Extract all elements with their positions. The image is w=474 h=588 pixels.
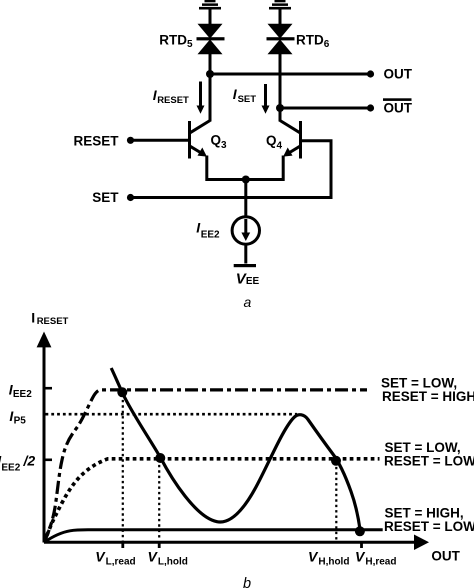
operating point at V_H,read bbox=[355, 526, 365, 536]
svg-text:IRESET: IRESET bbox=[153, 87, 189, 106]
operating point at V_L,hold bbox=[155, 453, 165, 463]
guide V_L,read (dotted vertical) bbox=[122, 395, 124, 541]
svg-text:VH,hold: VH,hold bbox=[308, 549, 349, 568]
svg-text:b: b bbox=[243, 576, 251, 588]
transistor Q3 bbox=[190, 121, 211, 159]
svg-text:RESET = LOW: RESET = LOW bbox=[384, 453, 474, 468]
wire RTD6 to node B bbox=[279, 54, 282, 108]
label OUTbar bbox=[383, 98, 413, 115]
svg-text:VEE: VEE bbox=[236, 271, 260, 288]
svg-text:OUT: OUT bbox=[384, 67, 413, 82]
svg-text:RESET: RESET bbox=[73, 134, 119, 149]
tick V_L,read bbox=[121, 543, 124, 549]
curve SET=LOW RESET=HIGH (dash-dot) bbox=[45, 390, 368, 542]
curve SET=LOW RESET=LOW (dotted) bbox=[45, 459, 380, 542]
tick V_L,hold bbox=[158, 543, 161, 549]
svg-text:VL,hold: VL,hold bbox=[148, 549, 188, 568]
VEE terminal bar bbox=[234, 264, 256, 267]
wire current source to VEE bbox=[244, 244, 247, 263]
svg-text:IRESET: IRESET bbox=[31, 310, 68, 328]
wire node B to OUTbar terminal bbox=[280, 107, 369, 110]
wire ground to RTD5 bbox=[209, 10, 212, 26]
label SET=HIGH RESET=LOW bbox=[384, 506, 474, 535]
current source I_EE2 bbox=[232, 217, 259, 244]
ground (top left) bbox=[199, 0, 221, 10]
wire SET rail bbox=[131, 196, 333, 199]
ground (top right) bbox=[269, 0, 291, 10]
solid folding curve (reset characteristic) bbox=[111, 368, 360, 531]
svg-text:OUT: OUT bbox=[384, 101, 413, 116]
SET terminal bbox=[127, 194, 134, 201]
wire RESET to Q3 base bbox=[131, 139, 189, 142]
node C (common emitters) bbox=[242, 176, 250, 184]
operating point at V_L,read bbox=[117, 387, 127, 397]
OUT terminal bbox=[367, 70, 374, 77]
wire node C to current source bbox=[244, 180, 247, 218]
svg-text:Q3: Q3 bbox=[211, 133, 228, 152]
svg-text:VL,read: VL,read bbox=[95, 549, 135, 568]
wire Q3 emitter to node C bbox=[207, 156, 246, 180]
current arrow I_RESET bbox=[197, 82, 205, 114]
RTD5 resonant tunneling diode bbox=[197, 24, 225, 54]
svg-text:Q4: Q4 bbox=[266, 133, 283, 152]
svg-text:ISET: ISET bbox=[233, 86, 257, 105]
wire RTD5 to node A bbox=[209, 54, 212, 74]
RESET terminal bbox=[127, 137, 134, 144]
tick I_EE2/2 bbox=[44, 458, 52, 461]
node B (Q4 collector / OUTbar) bbox=[276, 104, 284, 112]
guide V_L,hold (dotted vertical) bbox=[158, 460, 160, 541]
transistor Q4 bbox=[280, 121, 301, 159]
wire Q4 emitter to node C bbox=[246, 156, 283, 180]
svg-text:a: a bbox=[244, 294, 252, 310]
wire node A to Q3 collector bbox=[209, 74, 212, 122]
svg-text:RESET = HIGH: RESET = HIGH bbox=[382, 389, 474, 404]
svg-text:RTD6: RTD6 bbox=[296, 33, 330, 51]
wire ground to RTD6 bbox=[279, 10, 282, 26]
label SET=LOW RESET=LOW bbox=[384, 440, 474, 469]
svg-text:IEE2: IEE2 bbox=[196, 219, 220, 240]
wire Q4 base to SET rail bbox=[302, 141, 331, 196]
svg-text:OUT: OUT bbox=[431, 549, 460, 564]
operating point at V_H,hold bbox=[331, 456, 341, 466]
dotted level I_P5 bbox=[46, 413, 298, 416]
tick V_H,read bbox=[360, 543, 363, 549]
svg-text:IP5: IP5 bbox=[9, 408, 26, 427]
node A (Q3 collector / OUT) bbox=[206, 70, 214, 78]
guide V_H,hold (dotted vertical) bbox=[335, 462, 337, 541]
svg-text:SET: SET bbox=[92, 190, 119, 205]
svg-text:IEE2: IEE2 bbox=[9, 381, 33, 400]
svg-text:IEE2/2: IEE2/2 bbox=[0, 452, 35, 473]
wire node B to Q4 collector bbox=[279, 108, 282, 122]
OUTbar terminal bbox=[367, 104, 374, 111]
RTD6 resonant tunneling diode bbox=[267, 24, 295, 54]
wire node A to OUT terminal bbox=[210, 73, 369, 76]
svg-text:RESET = LOW: RESET = LOW bbox=[384, 519, 474, 534]
x-axis bbox=[44, 535, 429, 551]
svg-text:RTD5: RTD5 bbox=[159, 33, 193, 51]
label SET=LOW RESET=HIGH bbox=[381, 375, 474, 404]
curve SET=HIGH RESET=LOW (solid low) bbox=[45, 530, 383, 542]
current arrow I_SET bbox=[262, 84, 270, 114]
svg-text:VH,read: VH,read bbox=[355, 549, 396, 568]
y-axis bbox=[37, 332, 52, 543]
tick I_EE2 bbox=[44, 387, 52, 390]
